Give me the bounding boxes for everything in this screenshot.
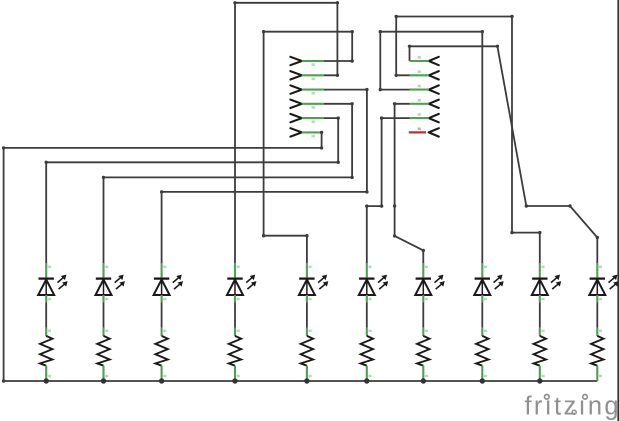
LED LED7 (422, 263, 424, 277)
female header J1 pin 3 (290, 85, 301, 93)
wire right header pin5 to LED6 anode (367, 118, 410, 263)
wire LED10 cathode to resistor R10 (596, 302, 598, 328)
junction LED4 column on ground bus (232, 378, 237, 383)
female header J1 pin 4 (290, 100, 301, 108)
LED LED2 (102, 263, 104, 277)
female header J2 pin 3 (429, 85, 439, 93)
wire LED2 cathode to resistor R2 (103, 302, 105, 328)
resistor R4 (234, 328, 236, 336)
resistor R5 (306, 328, 308, 336)
LED LED4 (234, 263, 236, 277)
junction LED5 column on ground bus (304, 378, 309, 383)
female header J1 pin 6 (290, 128, 301, 136)
resistor R8 (481, 328, 483, 336)
female header J2 pin 4 (429, 100, 439, 108)
resistor R6 (366, 328, 368, 336)
junction LED8 column on ground bus (480, 378, 485, 383)
wire LED1 cathode to resistor R1 (45, 302, 47, 328)
wire ground bus (4, 380, 598, 382)
female header J1 pin 2 (290, 71, 301, 79)
wire LED7 cathode to resistor R7 (422, 302, 424, 328)
LED LED9 (539, 263, 541, 277)
wire right header pin2 to LED9 anode (396, 17, 540, 264)
wire LED6 cathode to resistor R6 (366, 302, 368, 328)
wire LED8 cathode to resistor R8 (481, 302, 483, 328)
junction LED3 column on ground bus (159, 378, 164, 383)
wire LED9 cathode to resistor R9 (539, 302, 541, 328)
wire LED3 cathode to resistor R3 (161, 302, 163, 328)
resistor R10 (596, 328, 598, 336)
junction LED9 column on ground bus (537, 378, 542, 383)
LED LED6 (366, 263, 368, 277)
female header J2 pin 2 (429, 71, 439, 79)
junction LED2 column on ground bus (101, 378, 106, 383)
wire left header pin5 to LED1 anode (46, 118, 338, 263)
wire left header pin4 to LED2 anode (104, 104, 353, 264)
wire LED4 cathode to resistor R4 (234, 302, 236, 328)
LED LED3 (161, 263, 163, 277)
wire red stub at right header pin6 (409, 131, 426, 133)
female header J2 pin 5 (429, 114, 439, 122)
bendpoint ground bus left corner (2, 379, 5, 382)
resistor R3 (161, 328, 163, 336)
junction LED7 column on ground bus (421, 378, 426, 383)
bendpoint on wire right pin4 (393, 204, 396, 207)
wire left header pin1 to LED5 anode (264, 32, 353, 264)
wire left header pin6 to ground bus (4, 132, 322, 381)
female header J2 pin 1 (429, 57, 439, 65)
wire right header pin4 to LED7 anode (395, 104, 424, 264)
female header J1 pin 5 (290, 114, 301, 122)
wire left header pin2 to LED4 anode (235, 3, 337, 264)
svg-text:frıtzıng: frıtzıng (525, 393, 620, 421)
resistor R9 (539, 328, 541, 336)
female header J1 pin 1 (290, 57, 301, 65)
wire right header pin1 to LED10 anode (410, 46, 598, 263)
resistor R2 (102, 328, 104, 336)
resistor R1 (45, 328, 47, 336)
LED LED8 (481, 263, 483, 277)
canvas right border (617, 0, 619, 421)
junction LED6 column on ground bus (364, 378, 369, 383)
LED LED5 (306, 263, 308, 277)
LED LED1 (45, 263, 47, 277)
wire left header pin3 to LED3 anode (162, 90, 367, 264)
junction LED1 column on ground bus (44, 378, 49, 383)
wire right header pin3 to LED8 anode (380, 32, 482, 264)
female header J2 pin 6 (429, 128, 439, 136)
resistor R7 (422, 328, 424, 336)
LED LED10 (596, 263, 598, 277)
wire LED5 cathode to resistor R5 (306, 302, 308, 328)
